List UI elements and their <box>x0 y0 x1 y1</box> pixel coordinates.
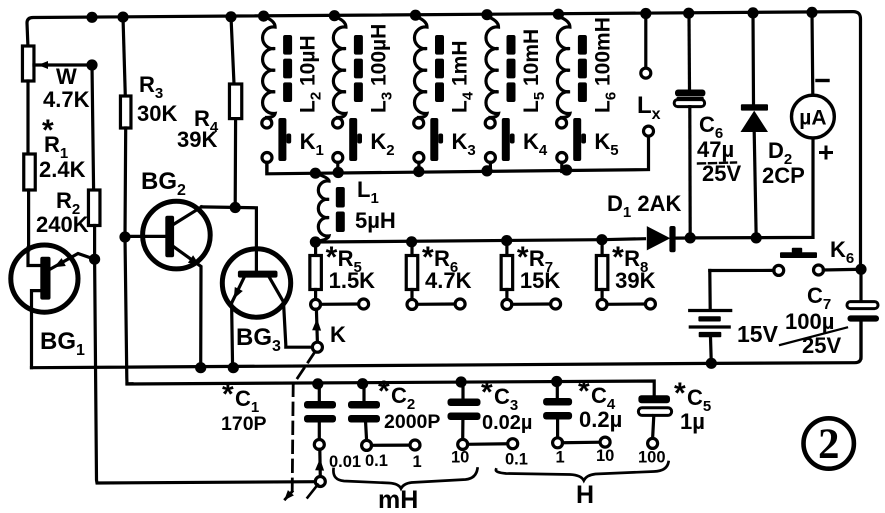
svg-text:0.2µ: 0.2µ <box>579 407 622 432</box>
svg-text:0.1: 0.1 <box>505 451 528 469</box>
brace mH range <box>333 469 477 489</box>
wiper rotation slash <box>308 485 318 498</box>
svg-text:L4 1mH: L4 1mH <box>449 40 477 113</box>
svg-text:15K: 15K <box>520 268 560 293</box>
svg-text:100: 100 <box>638 449 666 467</box>
switch K3 <box>414 118 443 172</box>
svg-text:BG3: BG3 <box>236 324 281 355</box>
resistor R5 1.5K <box>310 242 322 300</box>
svg-text:K2: K2 <box>370 129 394 159</box>
svg-text:0.1: 0.1 <box>365 452 388 470</box>
switch contact pair under R7 <box>502 299 561 309</box>
diode D2 2CP <box>741 13 769 238</box>
node BG2 base junction <box>119 231 130 242</box>
wire emitter ground bus <box>32 321 862 368</box>
capacitor C2 2000P <box>348 384 420 451</box>
svg-text:30K: 30K <box>137 101 177 126</box>
terminal Lx lower <box>644 126 654 136</box>
svg-text:C2: C2 <box>391 383 415 413</box>
svg-text:5µH: 5µH <box>355 208 396 233</box>
inductor L3 100µH <box>333 17 363 118</box>
wire W wiper node <box>86 59 97 70</box>
capacitor C4 0.2u <box>543 382 610 448</box>
switch contact pair under R6 <box>407 299 465 309</box>
diode D1 2AK <box>647 226 688 252</box>
svg-text:*: * <box>481 376 493 409</box>
wire detector node line <box>690 139 813 238</box>
node R4 collector junction <box>230 202 241 213</box>
svg-text:2CP: 2CP <box>762 163 805 188</box>
svg-text:1µ: 1µ <box>680 409 705 434</box>
resistor R2 240K <box>92 65 94 190</box>
wire BG2 collector to BG3 base <box>202 207 257 271</box>
svg-text:BG2: BG2 <box>141 168 186 199</box>
meter uA <box>792 12 835 138</box>
switch K4 <box>485 118 514 172</box>
svg-text:25V: 25V <box>702 161 741 186</box>
switch K5 <box>557 118 586 172</box>
wire BG2 base branch down to capacitor bus <box>125 237 132 384</box>
capacitor C3 0.02u <box>448 382 518 449</box>
inductor L4 1mH <box>414 17 444 118</box>
svg-text:25V: 25V <box>802 333 841 358</box>
svg-text:*: * <box>578 375 590 408</box>
svg-text:*: * <box>674 377 686 410</box>
svg-text:K4: K4 <box>523 129 548 159</box>
brace H range <box>496 462 669 481</box>
svg-text:BG1: BG1 <box>40 328 85 359</box>
resistor R6 4.7K <box>406 242 418 300</box>
node K bus junctions <box>310 168 321 179</box>
dashed mechanical linkage of switch K <box>292 353 314 492</box>
figure number 2 circled <box>804 418 854 468</box>
resistor R4 39K <box>231 17 234 84</box>
switch K lower wiper arm <box>315 449 325 486</box>
svg-text:K1: K1 <box>300 129 324 159</box>
svg-text:39K: 39K <box>615 268 655 293</box>
svg-text:1: 1 <box>556 449 565 467</box>
svg-text:K6: K6 <box>830 237 854 267</box>
svg-text:W: W <box>56 64 77 89</box>
capacitor C5 1u electrolytic <box>638 395 671 448</box>
svg-text:K: K <box>330 322 346 347</box>
node tank line junctions <box>310 236 321 247</box>
svg-text:C1: C1 <box>235 386 259 416</box>
svg-text:100µ: 100µ <box>785 309 834 334</box>
switch contact pair under R5 <box>311 299 369 309</box>
svg-text:10: 10 <box>451 449 469 467</box>
battery 15V <box>690 271 731 364</box>
terminal Lx upper <box>644 14 647 69</box>
capacitor C7 100u 25V <box>847 269 879 358</box>
inductor L5 10mH <box>486 17 516 118</box>
resistor R3 30K <box>123 17 125 96</box>
svg-text:0.02µ: 0.02µ <box>482 412 532 434</box>
node battery to ground bus <box>706 358 717 369</box>
capacitor C1 170P <box>304 384 336 450</box>
label meter plus <box>821 151 832 154</box>
svg-text:L5 10mH: L5 10mH <box>520 29 548 113</box>
node capacitor bus junctions <box>312 378 323 389</box>
svg-text:D1 2AK: D1 2AK <box>607 191 681 221</box>
potentiometer W 4.7K <box>22 46 34 81</box>
svg-text:L2 10µH: L2 10µH <box>297 35 325 113</box>
resistor R1 2.4K <box>26 81 29 154</box>
svg-text:K5: K5 <box>594 129 618 159</box>
svg-text:R3: R3 <box>139 72 163 102</box>
svg-text:mH: mH <box>378 486 418 513</box>
wire capacitor common bus <box>127 381 654 395</box>
inductor L6 100mH <box>557 17 587 118</box>
resistor R7 15K <box>501 241 513 300</box>
svg-text:2.4K: 2.4K <box>39 157 86 182</box>
svg-text:10: 10 <box>596 447 614 465</box>
wire K switch common bus <box>267 136 649 174</box>
svg-text:170P: 170P <box>221 413 267 435</box>
svg-text:L6 100mH: L6 100mH <box>591 17 619 113</box>
svg-text:L3 100µH: L3 100µH <box>367 24 395 113</box>
svg-text:Lx: Lx <box>637 92 661 123</box>
svg-text:2: 2 <box>818 421 840 468</box>
svg-text:H: H <box>576 481 594 509</box>
wire R2 branch down to range switch wiper line <box>95 259 316 483</box>
svg-text:*: * <box>378 375 390 408</box>
switch K wiper arm <box>312 309 322 352</box>
svg-text:15V: 15V <box>737 321 779 347</box>
transistor BG1 <box>11 245 95 368</box>
svg-text:4.7K: 4.7K <box>43 87 90 112</box>
resistor R8 39K <box>596 240 608 300</box>
svg-text:47µ: 47µ <box>697 137 734 162</box>
capacitor C6 47u 25V <box>674 13 705 238</box>
inductor L2 10µH <box>263 17 293 118</box>
node K6 to right rail <box>855 264 866 275</box>
svg-text:1.5K: 1.5K <box>329 268 376 293</box>
svg-text:C3: C3 <box>494 384 518 414</box>
node BG1 collector junction <box>89 254 100 265</box>
switch K6 pushbutton <box>710 248 861 276</box>
wire oscillator tank node line <box>315 239 644 242</box>
svg-text:µA: µA <box>799 107 826 130</box>
switch K2 <box>333 118 362 172</box>
svg-text:240K: 240K <box>36 212 89 237</box>
node detector junctions <box>685 232 696 243</box>
transistor BG3 <box>222 249 312 368</box>
svg-text:1: 1 <box>413 453 422 471</box>
svg-text:2000P: 2000P <box>384 411 440 433</box>
svg-text:L1: L1 <box>357 177 379 207</box>
switch contact pair under R8 <box>597 299 655 309</box>
linkage arrow <box>285 492 292 500</box>
svg-text:K3: K3 <box>452 129 476 159</box>
svg-text:*: * <box>222 378 234 411</box>
svg-text:39K: 39K <box>177 127 217 152</box>
wire top supply bus <box>27 12 861 266</box>
switch K1 <box>262 118 291 172</box>
node ground bus junctions <box>195 362 206 373</box>
svg-text:4.7K: 4.7K <box>425 268 472 293</box>
label meter minus <box>817 79 828 82</box>
inductor L1 5uH <box>315 174 344 242</box>
node top bus junctions <box>86 12 97 23</box>
transistor BG2 <box>125 201 210 367</box>
